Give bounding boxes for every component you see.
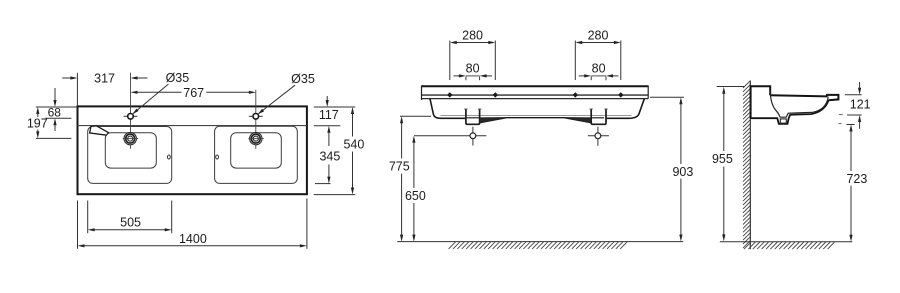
wall hatching	[743, 81, 750, 248]
wall fixing dots on rim	[447, 92, 623, 97]
hidden bowl bottom line	[441, 114, 632, 116]
tapered underside right of trap 1	[480, 118, 506, 123]
drain pipe symbol 1	[414, 127, 486, 146]
svg-text:80: 80	[466, 62, 480, 76]
dimension &#216;35 faucet 2 with leader	[258, 72, 315, 114]
drain 1	[123, 132, 139, 144]
floor hatch strokes	[449, 242, 628, 249]
dimension &#216;35 faucet 1 with leader	[132, 71, 189, 114]
dimension 280 right pair	[575, 28, 621, 80]
left bowl bottom outline	[105, 133, 156, 168]
basin outer rectangle (top view)	[78, 106, 307, 194]
basin profile (side)	[751, 86, 839, 124]
left overflow hole	[168, 155, 171, 159]
svg-text:Ø35: Ø35	[166, 71, 190, 85]
svg-text:317: 317	[94, 72, 115, 86]
svg-text:197: 197	[27, 116, 48, 130]
dimension 505 (recess width)	[88, 201, 172, 234]
left basin recess outline	[88, 127, 172, 184]
svg-text:505: 505	[120, 215, 141, 229]
right overflow hole	[216, 155, 219, 159]
floor line under front view	[397, 241, 683, 243]
svg-text:723: 723	[846, 172, 867, 186]
svg-text:345: 345	[319, 150, 340, 164]
svg-text:80: 80	[592, 62, 606, 76]
dimension 955 (floor to rim top)	[712, 87, 745, 242]
svg-text:117: 117	[319, 108, 339, 122]
dimension 121 (rim to underside)	[839, 82, 871, 129]
dimension 68 (top edge to faucet line)	[36, 88, 78, 131]
centerline through faucet hole 2 and drain 2	[255, 90, 257, 149]
drain trap 2	[590, 109, 608, 125]
drain pipe symbol 2	[588, 127, 609, 146]
dimension 80 right (trap width)	[579, 62, 619, 81]
right bowl bottom outline	[231, 133, 282, 168]
dimension 117 (top edge to deck line, right side)	[314, 96, 356, 126]
svg-text:903: 903	[672, 165, 693, 179]
dimension 317 (left edge to faucet 1)	[62, 72, 147, 106]
dimension 345 (deck line to recess bottom)	[315, 126, 340, 184]
svg-text:68: 68	[48, 106, 62, 120]
svg-text:650: 650	[405, 189, 426, 203]
dimension 723 (drain boss to floor)	[839, 124, 868, 242]
dimension 650 (floor to drain outlet)	[405, 136, 426, 242]
drain 2	[248, 132, 263, 144]
floor line right view	[720, 241, 853, 243]
dimension 540 (overall depth)	[314, 107, 365, 195]
deck edge line	[78, 125, 307, 127]
centerline through faucet hole 1 and drain 1	[130, 73, 132, 149]
dimension 903 (floor to rim underside)	[650, 97, 693, 241]
body outline left end	[430, 99, 466, 119]
dimension 775 (floor to underside)	[389, 116, 431, 241]
dimension 80 left (trap width)	[454, 62, 493, 81]
svg-text:Ø35: Ø35	[291, 72, 315, 86]
right basin recess outline	[215, 126, 298, 183]
body outline right end	[606, 99, 644, 119]
svg-text:540: 540	[343, 137, 364, 151]
flat underside between traps	[506, 117, 566, 119]
svg-text:775: 775	[389, 160, 410, 174]
wall line	[749, 81, 751, 250]
svg-text:1400: 1400	[179, 232, 207, 246]
svg-text:767: 767	[183, 86, 204, 100]
dimension 197 (top edge to drain line)	[27, 107, 72, 138]
dimension 280 left pair	[450, 28, 496, 80]
svg-text:121: 121	[850, 97, 871, 111]
drain trap 1	[464, 109, 481, 125]
floor hatching right view	[744, 242, 835, 249]
svg-text:955: 955	[712, 152, 733, 166]
tapered underside left of trap 2	[565, 118, 591, 123]
faucet hole 1	[124, 114, 138, 120]
rim slab front face	[422, 85, 649, 100]
svg-text:280: 280	[588, 28, 609, 42]
dimension 767 (faucet 1 to faucet 2)	[131, 86, 256, 100]
faucet hole 2	[249, 114, 263, 120]
svg-text:280: 280	[462, 28, 483, 42]
corner wedge on left recess	[90, 126, 109, 135]
dimension 1400 (overall width)	[78, 199, 307, 249]
